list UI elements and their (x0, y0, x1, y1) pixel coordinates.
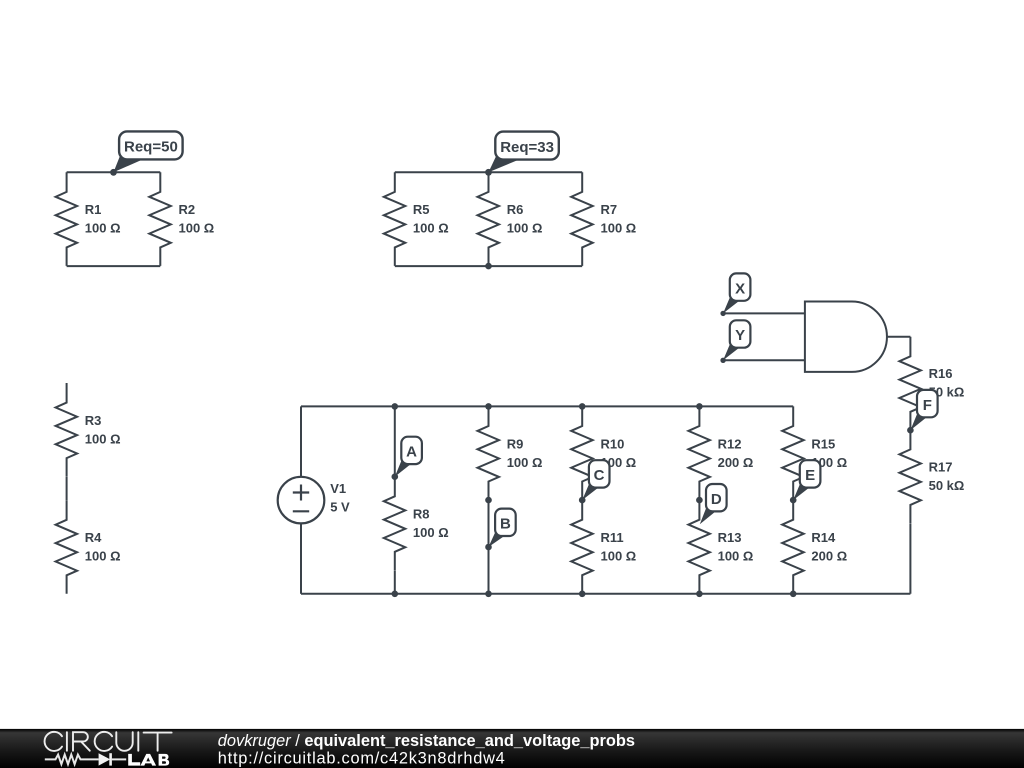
node bottom rail at branch B (485, 591, 492, 598)
resistor R4 (56, 500, 78, 594)
label R5 value (413, 202, 449, 236)
wire Y input (723, 359, 805, 361)
wire X input (723, 312, 805, 314)
node junction R6 bottom (485, 263, 492, 270)
CircuitLab logo (45, 732, 172, 766)
callout Req=33 (485, 132, 559, 176)
svg-text:R10: R10 (601, 436, 625, 451)
footer bar (0, 729, 1024, 768)
svg-text:50 kΩ: 50 kΩ (929, 478, 965, 493)
callout Req=50 (110, 131, 183, 175)
label R16 value (929, 366, 965, 400)
label R8 value (413, 507, 449, 541)
resistor R15 (782, 406, 804, 500)
resistor R7 (571, 172, 593, 266)
resistor R10 (571, 406, 593, 500)
resistor R13 (688, 500, 710, 594)
svg-text:R3: R3 (85, 413, 102, 428)
label R3 value (85, 413, 121, 447)
svg-text:R9: R9 (507, 436, 524, 451)
svg-text:100 Ω: 100 Ω (601, 549, 637, 564)
label R10 value (601, 436, 637, 470)
footer url text (218, 749, 506, 767)
resistor R2 (149, 172, 171, 266)
wire main top rail (301, 405, 793, 407)
resistor R16 (899, 337, 921, 431)
label R12 value (718, 436, 754, 470)
svg-text:R16: R16 (929, 366, 953, 381)
svg-text:100 Ω: 100 Ω (85, 549, 121, 564)
svg-text:R11: R11 (601, 530, 624, 545)
svg-text:R4: R4 (85, 530, 102, 545)
svg-text:100 Ω: 100 Ω (507, 455, 543, 470)
resistor R14 (782, 500, 804, 594)
svg-text:R7: R7 (601, 202, 618, 217)
probe A (392, 437, 422, 480)
resistor R5 (384, 172, 406, 266)
label R6 value (507, 202, 543, 236)
probe X (720, 273, 750, 316)
node top rail at branch C (579, 403, 586, 410)
svg-text:100 Ω: 100 Ω (601, 221, 637, 236)
resistor R12 (688, 406, 710, 500)
svg-text:R8: R8 (413, 507, 430, 522)
label R14 value (811, 530, 847, 564)
svg-text:R13: R13 (718, 530, 742, 545)
node top rail at branch D (696, 403, 703, 410)
svg-text:Req=50: Req=50 (124, 139, 178, 156)
wire gate output (887, 336, 910, 338)
probe F (907, 390, 937, 434)
resistor R8 (384, 477, 406, 571)
label R4 value (85, 530, 121, 564)
svg-text:100 Ω: 100 Ω (413, 221, 449, 236)
svg-text:100 Ω: 100 Ω (179, 221, 215, 236)
wire between R3 and R4 (66, 477, 68, 500)
resistor R6 (478, 172, 500, 266)
label R13 value (718, 530, 754, 564)
probe B (485, 509, 516, 551)
svg-text:Y: Y (735, 327, 745, 344)
label V1 value (330, 481, 350, 515)
node bottom rail at branch E (790, 591, 797, 598)
svg-text:http://circuitlab.com/c42k3n8d: http://circuitlab.com/c42k3n8drhdw4 (218, 749, 506, 767)
node bottom rail at branch D (696, 591, 703, 598)
svg-text:5 V: 5 V (330, 500, 350, 515)
label R7 value (601, 202, 637, 236)
svg-text:R2: R2 (179, 202, 196, 217)
svg-text:R12: R12 (718, 436, 742, 451)
label R1 value (85, 202, 121, 236)
svg-text:dovkruger / equivalent_resista: dovkruger / equivalent_resistance_and_vo… (218, 732, 635, 750)
label R17 value (929, 460, 965, 494)
svg-text:R15: R15 (811, 436, 835, 451)
label R9 value (507, 436, 543, 470)
svg-text:V1: V1 (330, 481, 346, 496)
svg-text:X: X (735, 280, 745, 297)
resistor R3 (56, 383, 78, 477)
svg-text:200 Ω: 200 Ω (718, 455, 754, 470)
label R2 value (179, 202, 215, 236)
probe C (579, 460, 610, 503)
node top rail at branch B (485, 403, 492, 410)
svg-text:100 Ω: 100 Ω (85, 431, 121, 446)
wire bottom rail of R5-R7 loop (395, 265, 582, 267)
svg-text:C: C (594, 467, 605, 484)
probe D (696, 484, 726, 524)
wire branch A upper (394, 406, 396, 476)
svg-text:R14: R14 (811, 530, 836, 545)
resistor R1 (56, 172, 78, 266)
svg-text:F: F (923, 397, 932, 414)
label R15 value (811, 436, 847, 470)
probe Y (720, 320, 750, 363)
svg-text:R1: R1 (85, 202, 102, 217)
wire top rail of R1-R2 loop (67, 171, 161, 173)
svg-text:R17: R17 (929, 460, 953, 475)
svg-text:E: E (805, 467, 815, 484)
wire main bottom rail (301, 593, 910, 595)
svg-text:R6: R6 (507, 202, 524, 217)
resistor R17 (899, 430, 921, 524)
wire V1 bottom lead (300, 523, 302, 593)
node bottom rail at branch A (392, 591, 399, 598)
node R9 bottom terminal (485, 497, 492, 504)
wire branch A lower (394, 571, 396, 594)
resistor R11 (571, 500, 593, 594)
label R11 value (601, 530, 637, 564)
svg-text:R5: R5 (413, 202, 430, 217)
node top rail at branch A (392, 403, 399, 410)
wire right column lower (909, 524, 911, 594)
wire top rail of R5-R7 loop (395, 171, 582, 173)
svg-text:100 Ω: 100 Ω (85, 221, 121, 236)
probe E (790, 460, 820, 503)
footer title text (218, 732, 635, 750)
voltage source V1 (278, 477, 325, 524)
svg-text:A: A (406, 444, 417, 461)
resistor R9 (478, 406, 500, 500)
wire bottom rail of R1-R2 loop (67, 265, 161, 267)
node bottom rail at branch C (579, 591, 586, 598)
wire V1 top lead (300, 406, 302, 476)
and-gate U1 (805, 302, 887, 372)
svg-text:200 Ω: 200 Ω (811, 549, 847, 564)
svg-text:100 Ω: 100 Ω (507, 221, 543, 236)
svg-text:D: D (711, 491, 722, 508)
svg-text:100 Ω: 100 Ω (718, 549, 754, 564)
svg-text:100 Ω: 100 Ω (413, 525, 449, 540)
svg-text:Req=33: Req=33 (500, 139, 554, 156)
wire branch B lower (488, 500, 490, 594)
svg-text:B: B (500, 516, 511, 533)
